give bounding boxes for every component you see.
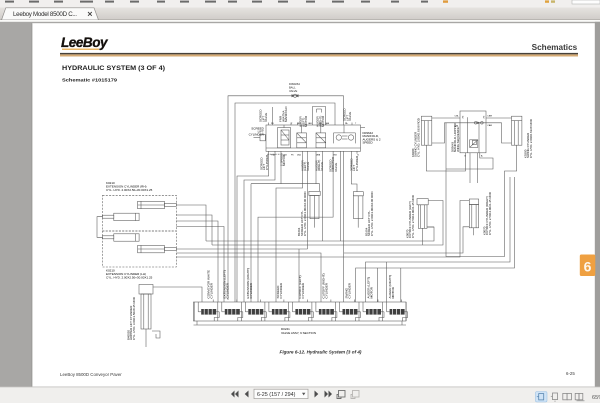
2-speed motor component M1 bbox=[334, 125, 356, 143]
wire: right rail r3 bbox=[366, 177, 511, 302]
view mode icons bbox=[536, 392, 600, 403]
svg-text:CYL. HYD. 3.00X1.50X8.25 ROD: CYL. HYD. 3.00X1.50X8.25 ROD bbox=[132, 297, 136, 340]
svg-text:SPEED: SPEED bbox=[363, 141, 374, 145]
wire: CBL bbox=[432, 117, 460, 119]
svg-text:CYLINDER: CYLINDER bbox=[325, 282, 329, 298]
wire f5 bbox=[307, 151, 309, 249]
wire: hopper cyl to valve bank bbox=[153, 287, 202, 302]
wire f9 bbox=[343, 151, 345, 302]
wire f11 screed cyl right feed bbox=[351, 151, 357, 191]
svg-text:CYL. HYD. 2.50X4.00X1.25 ROD: CYL. HYD. 2.50X4.00X1.25 ROD bbox=[411, 195, 415, 238]
cylinder D in LH box bbox=[138, 245, 177, 252]
wire c2 bbox=[340, 151, 342, 241]
svg-text:CYLINDER: CYLINDER bbox=[355, 155, 359, 171]
label: valve section 1 CONVEYOR WHITE CYLINDER bbox=[207, 270, 214, 299]
cutoff cylinder right bbox=[469, 199, 478, 235]
label: K0070 CUTOFF CYLINDER (RIGHT) bbox=[482, 192, 492, 235]
label: FNR W/ATNA MANIFOLD (vertical) bbox=[279, 106, 289, 122]
wire f4 bbox=[276, 151, 303, 302]
svg-text:MOTOR: MOTOR bbox=[282, 154, 286, 166]
label: D09643 MANIFOLD, HOPPER WING SEQUENCE bbox=[450, 123, 460, 152]
wire h5 bbox=[176, 201, 469, 258]
header rule bbox=[60, 53, 578, 55]
label: AUGER (LEFT) MOTOR (vertical) bbox=[299, 115, 309, 127]
wire: manifold bottom drop a bbox=[477, 153, 479, 183]
active document tab bbox=[2, 8, 99, 20]
strip under tabs bbox=[0, 20, 600, 22]
label: valve section 9 AUGER (RIGHT) MOTOR bbox=[388, 275, 395, 299]
wire f3 bbox=[280, 151, 282, 183]
wire h1 to cutoff left lower bbox=[206, 227, 434, 241]
wire: cutoff left lower port stub bbox=[427, 226, 434, 228]
label: K0200 SWING CYLINDER (right) bbox=[523, 119, 533, 158]
extension cylinder box RH (dashed) bbox=[103, 195, 177, 231]
valve section 1 bbox=[194, 300, 219, 322]
ball valve D090264 bbox=[291, 94, 300, 97]
svg-text:VALVE: VALVE bbox=[306, 162, 310, 171]
svg-text:6: 6 bbox=[584, 259, 592, 275]
label: SCREED LIFT VALVE (right, vertical) bbox=[343, 108, 353, 121]
svg-text:CYL. HYD. 2.00X2.50+30.00X1.25: CYL. HYD. 2.00X2.50+30.00X1.25 bbox=[106, 188, 153, 192]
internal rails bbox=[467, 117, 469, 153]
wire h2 to cutoff left cap bbox=[212, 201, 443, 246]
cylinder C in LH box bbox=[103, 234, 140, 241]
wire f1 bbox=[237, 151, 269, 302]
valve cell V3 bbox=[316, 125, 326, 148]
svg-text:65%: 65% bbox=[592, 395, 600, 401]
svg-text:6-25 (157 / 294): 6-25 (157 / 294) bbox=[257, 392, 296, 398]
swing cylinder right bbox=[512, 116, 522, 157]
svg-text:MOTOR: MOTOR bbox=[304, 115, 308, 127]
svg-text:CYL. HYD. 2.50X4.00X1.25 ROD: CYL. HYD. 2.50X4.00X1.25 ROD bbox=[488, 192, 492, 235]
history icons bbox=[337, 391, 345, 399]
swing cylinder left bbox=[421, 116, 431, 157]
node X3 left bbox=[463, 115, 486, 118]
wire l5a bbox=[176, 221, 218, 302]
svg-text:VALVE: VALVE bbox=[289, 89, 297, 93]
label: screed lift cyl right bbox=[364, 191, 374, 236]
svg-text:CAR: CAR bbox=[487, 124, 492, 127]
svg-text:CYL. HYD. 2.00X0.63X8 ROD: CYL. HYD. 2.00X0.63X8 ROD bbox=[417, 118, 421, 157]
label: valve section 4 SCREED CYLINDER bbox=[276, 282, 283, 298]
wire f7 bbox=[322, 151, 324, 241]
label: screed lift cyl left bbox=[297, 191, 307, 236]
extension cylinder box LH (dashed) bbox=[103, 231, 177, 267]
wire: right rail r2 bbox=[356, 177, 515, 302]
dashed tube under manifold bbox=[267, 153, 283, 155]
label: D0241 VALVE ASSY bbox=[281, 327, 316, 335]
svg-text:CYL. HYD. 2.00X2.50+30.00X1.25: CYL. HYD. 2.00X2.50+30.00X1.25 bbox=[106, 275, 153, 279]
wire: port A loop bbox=[446, 153, 493, 169]
valve section 7 bbox=[336, 300, 361, 322]
wire: f9 branch to cutoff right lower bbox=[344, 227, 470, 253]
svg-text:CYL. HYD. 2.00X1.00X10.00 ROD: CYL. HYD. 2.00X1.00X10.00 ROD bbox=[370, 191, 374, 236]
label: K0210 EXTENSION CYLINDER (RH) bbox=[106, 181, 153, 192]
svg-text:HYDRAULIC SYSTEM (3 OF 4): HYDRAULIC SYSTEM (3 OF 4) bbox=[62, 65, 165, 72]
svg-text:VALVE: VALVE bbox=[348, 112, 352, 121]
svg-text:Leeboy Model 8500D C...: Leeboy Model 8500D C... bbox=[13, 11, 77, 18]
wire: drop to section 3 bbox=[250, 184, 252, 302]
svg-text:MOTOR: MOTOR bbox=[321, 115, 325, 127]
valve section 4 bbox=[265, 300, 290, 322]
scrollbar bbox=[595, 22, 600, 387]
junction box at manifold left bbox=[254, 135, 266, 141]
valve cell V2 bbox=[297, 125, 307, 148]
svg-text:LeeBoy 8500D Conveyor Paver: LeeBoy 8500D Conveyor Paver bbox=[60, 372, 122, 377]
svg-text:VALVE: VALVE bbox=[334, 163, 338, 172]
svg-text:CBR: CBR bbox=[487, 116, 492, 118]
wire: right rail r1 bbox=[446, 123, 517, 257]
label: K0200 SWING CYLINDER (left) bbox=[411, 118, 421, 157]
label: valve section 3 EXTENSION (RIGHT) CYLINDER bbox=[246, 268, 253, 298]
wire f2 bbox=[244, 151, 275, 302]
screed lift cylinder left bbox=[309, 191, 320, 227]
manifold top port labels bbox=[271, 122, 357, 125]
wire: CAL bbox=[432, 123, 460, 143]
svg-text:CYL. HYD. 2.00X1.00X10.00 ROD: CYL. HYD. 2.00X1.00X10.00 ROD bbox=[303, 191, 307, 236]
cylinder B in RH box bbox=[103, 213, 140, 220]
chapter tab 6 bbox=[580, 255, 596, 277]
cylinder A in RH box bbox=[138, 201, 177, 208]
page box bbox=[254, 389, 308, 398]
wire h4 bbox=[176, 253, 321, 302]
wire: ext RH rod out bbox=[176, 205, 206, 241]
manifold port ticks bbox=[269, 123, 358, 154]
label: K0070 CUTOFF CYLINDER (LEFT) bbox=[405, 195, 415, 238]
valve section 3 bbox=[241, 300, 266, 322]
svg-text:CYLINDER: CYLINDER bbox=[249, 133, 265, 137]
wire h2 left bbox=[176, 215, 212, 245]
wire l5b bbox=[176, 227, 224, 303]
valve cell V1 bbox=[278, 125, 291, 148]
svg-text:CYLINDER: CYLINDER bbox=[225, 282, 229, 298]
label: valve section 6 CUTOFF (RIGHT) CYLINDER bbox=[322, 273, 329, 298]
svg-text:CYLINDER: CYLINDER bbox=[249, 282, 253, 298]
auger motor bracket symbol bbox=[313, 107, 326, 126]
svg-text:WING SEQUENCE: WING SEQUENCE bbox=[456, 127, 460, 152]
label: valve section 7 SWING CYLINDER bbox=[345, 282, 352, 298]
manifold right stub bbox=[361, 127, 366, 129]
svg-text:CYLINDER: CYLINDER bbox=[279, 282, 283, 298]
label: B40020 HOPPER LIFT CYLINDER bbox=[126, 297, 136, 340]
nav: last bbox=[325, 391, 333, 398]
valve section 6 bbox=[312, 300, 337, 322]
svg-text:BALL: BALL bbox=[289, 86, 296, 90]
menu bar sliver bbox=[0, 0, 600, 8]
svg-text:VALVE: VALVE bbox=[320, 162, 324, 171]
svg-text:Schematic #1015179: Schematic #1015179 bbox=[62, 78, 118, 83]
label: D09642 MANIFOLD, AUGERS & 2 SPEED bbox=[363, 131, 381, 145]
wire: top supply rail from left rail to ball valve to manifold bbox=[228, 96, 291, 300]
wire: CAR bbox=[495, 123, 512, 143]
labels below manifold (vertical) bbox=[259, 152, 359, 172]
valve section 2 bbox=[218, 300, 243, 322]
svg-text:MANIFOLD: MANIFOLD bbox=[284, 106, 288, 122]
wire: CBR bbox=[486, 117, 512, 119]
hopper manifold D09643 bbox=[460, 111, 486, 153]
svg-text:CYLINDER: CYLINDER bbox=[348, 282, 352, 298]
label: SCREED LIFT CYLINDER (left of manifold) bbox=[249, 127, 265, 137]
wire: screed left feed rail bbox=[251, 184, 320, 192]
svg-text:VALVE ASSY, 9 SECTION: VALVE ASSY, 9 SECTION bbox=[281, 331, 316, 335]
svg-text:VALVE: VALVE bbox=[264, 113, 268, 122]
label: valve section 5 CUTOFF (LEFT) CYLINDER bbox=[298, 276, 305, 299]
svg-text:MOTOR: MOTOR bbox=[391, 286, 395, 298]
svg-text:Schematics: Schematics bbox=[532, 43, 578, 52]
sequence valve bbox=[470, 140, 478, 148]
svg-text:CYL. HYD. 2.00X0.63X8 ROD: CYL. HYD. 2.00X0.63X8 ROD bbox=[529, 119, 533, 158]
wire: screed lift valve drop bbox=[272, 107, 274, 125]
label: valve section 8 AUGER (LEFT) MOTOR bbox=[367, 277, 374, 299]
hook fitting bbox=[152, 331, 160, 338]
wire: link between ext boxes bbox=[97, 217, 103, 238]
svg-text:CYLINDER: CYLINDER bbox=[210, 282, 214, 298]
svg-text:CYLINDER: CYLINDER bbox=[301, 282, 305, 298]
wire: port B loop bbox=[426, 153, 465, 171]
valve section 8 bbox=[359, 300, 384, 322]
manifold bottom port labels bbox=[271, 154, 359, 157]
port labels hopper manifold bbox=[455, 116, 493, 158]
wire: second rail bbox=[235, 103, 335, 302]
valve bank D0241 bbox=[194, 302, 407, 325]
screed lift cylinder right bbox=[353, 192, 363, 228]
wire f6 screed cyl left feed bbox=[315, 151, 317, 183]
svg-text:MOTOR: MOTOR bbox=[370, 286, 374, 298]
manifold U1 D09642 outline bbox=[266, 125, 361, 151]
nav: next bbox=[315, 391, 319, 398]
nav: prev bbox=[245, 391, 249, 398]
wire: manifold bottom drop b bbox=[469, 153, 471, 183]
valve section 9 bbox=[383, 300, 408, 322]
svg-text:D090264: D090264 bbox=[289, 82, 300, 86]
wire h3 (ext LH rod to valve) bbox=[176, 248, 307, 250]
svg-text:LeeBoy: LeeBoy bbox=[61, 35, 109, 50]
label: valve section 2 EXTENSION (LEFT) CYLINDER bbox=[222, 270, 229, 298]
label: K0210 EXTENSION CYLINDER (LH) bbox=[106, 269, 153, 280]
svg-text:CYLINDER: CYLINDER bbox=[265, 154, 269, 170]
cutoff cylinder left bbox=[417, 199, 428, 245]
hopper lift cylinder bbox=[139, 285, 153, 348]
nav: first page bbox=[231, 391, 239, 398]
node: ball valve label bbox=[289, 82, 300, 93]
wire c1 bbox=[258, 151, 333, 302]
wire: drop to section 5 bbox=[298, 249, 300, 302]
svg-text:Figure 6-12. Hydraulic System: Figure 6-12. Hydraulic System (3 of 4) bbox=[280, 350, 362, 355]
label: SCREED LIFT VALVE (left, vertical) bbox=[259, 109, 269, 122]
svg-text:6-25: 6-25 bbox=[566, 371, 575, 376]
valve section 5 bbox=[288, 300, 313, 322]
ball valve in hopper manifold bbox=[460, 122, 495, 125]
label: AUGER (RIGHT) MOTOR (vertical) bbox=[316, 115, 326, 127]
